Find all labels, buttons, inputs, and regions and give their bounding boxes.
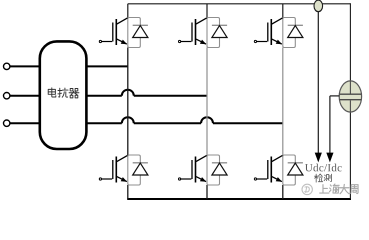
diode D3 (freewheel) xyxy=(288,25,303,37)
diode D6 (freewheel) xyxy=(288,163,303,175)
reactor L1 (AC reactor) xyxy=(40,41,87,149)
wire leg3 collector stub xyxy=(282,4,284,18)
igbt module box Q6 xyxy=(283,155,296,185)
watermark logo xyxy=(302,184,312,194)
igbt module box Q3 xyxy=(283,18,296,48)
wire leg3 emitter stub xyxy=(282,185,284,199)
label Udc/Idc xyxy=(305,164,342,172)
wire phase T to leg 3 (hops over leg1, leg2) xyxy=(10,122,122,124)
transistor Q3 (IGBT) xyxy=(254,18,282,45)
watermark text 上海大周 xyxy=(320,184,358,194)
wire leg1 midpoint (phase R node) xyxy=(127,48,129,156)
diode D1 (freewheel) xyxy=(133,25,148,37)
input terminal S xyxy=(3,93,9,99)
diode D4 (freewheel) xyxy=(133,163,148,175)
capacitor C1 (DC link, electrolytic) xyxy=(339,81,361,112)
wire leg2 midpoint (phase S node) xyxy=(206,48,208,156)
input terminal R xyxy=(3,63,9,69)
wire leg1 collector stub xyxy=(127,4,129,18)
wire Udc sense tap from capacitor xyxy=(330,95,339,97)
label 检测 (detection) xyxy=(315,174,332,182)
diode D5 (freewheel) xyxy=(212,163,227,175)
input terminal T xyxy=(3,120,9,126)
transistor Q5 (IGBT) xyxy=(179,155,207,182)
arrow Udc into detection xyxy=(326,153,333,163)
wire Idc sense line xyxy=(317,12,319,154)
transistor Q1 (IGBT) xyxy=(99,18,127,45)
wire right rail top (bus to capacitor) xyxy=(349,3,351,81)
wire phase S to leg 2 (hop over leg1) xyxy=(10,95,122,97)
transistor Q2 (IGBT) xyxy=(179,18,207,45)
igbt module box Q5 xyxy=(207,155,220,185)
current sensor CT1 on positive bus xyxy=(314,0,323,12)
wire leg3 midpoint (phase T node) xyxy=(282,48,284,156)
igbt module box Q1 xyxy=(128,18,141,48)
wire leg2 collector stub xyxy=(206,4,208,18)
wire leg1 emitter stub xyxy=(127,185,129,199)
igbt module box Q4 xyxy=(128,155,141,185)
wire right rail bottom (capacitor to bottom bus) xyxy=(349,112,351,199)
arrow Idc into detection xyxy=(315,153,322,163)
wire leg2 emitter stub xyxy=(206,185,208,199)
label 电抗器 (reactor) xyxy=(48,88,79,98)
wire positive DC bus (top) xyxy=(128,3,351,5)
transistor Q4 (IGBT) xyxy=(99,155,127,182)
wire phase R to leg 1 xyxy=(10,65,128,67)
transistor Q6 (IGBT) xyxy=(254,155,282,182)
wire negative DC bus (bottom) xyxy=(127,198,351,200)
diode D2 (freewheel) xyxy=(212,25,227,37)
igbt module box Q2 xyxy=(207,18,220,48)
